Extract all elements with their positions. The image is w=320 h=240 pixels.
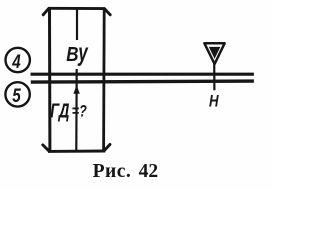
svg-text:Рис.: Рис.: [93, 161, 132, 182]
wire from top bar down to unit VU: [76, 9, 78, 41]
block frame bottom bar: [48, 150, 105, 153]
tank symbol inner filled triangle: [209, 47, 221, 59]
node label circle 4: [6, 48, 30, 72]
pipe line 5 (lower rail): [31, 81, 254, 82]
wire from VU through rails down to GD: [75, 69, 78, 150]
svg-text:В: В: [66, 43, 78, 66]
svg-text:4: 4: [11, 50, 21, 72]
pipe line 4 (upper rail): [31, 73, 254, 76]
wire from tank down through rails: [213, 62, 215, 90]
unit label VU: [66, 39, 88, 67]
block frame right vertical: [102, 8, 105, 151]
svg-text:42: 42: [139, 161, 159, 182]
svg-text:Н: Н: [209, 92, 219, 111]
arrowhead pointing up below lower rail: [73, 85, 79, 94]
bottom-left corner tick: [43, 145, 49, 151]
top-left corner tick: [43, 9, 48, 15]
top-right corner tick: [105, 9, 111, 15]
svg-text:ГД: ГД: [50, 99, 69, 122]
bottom-right corner tick: [104, 144, 110, 150]
node label circle 5: [5, 82, 29, 106]
svg-text:5: 5: [12, 84, 21, 106]
svg-text:у: у: [77, 39, 88, 67]
tank symbol outer triangle: [204, 43, 224, 64]
block frame left vertical: [48, 8, 51, 151]
svg-text:=?: =?: [72, 103, 87, 121]
block frame top bar: [48, 7, 105, 10]
